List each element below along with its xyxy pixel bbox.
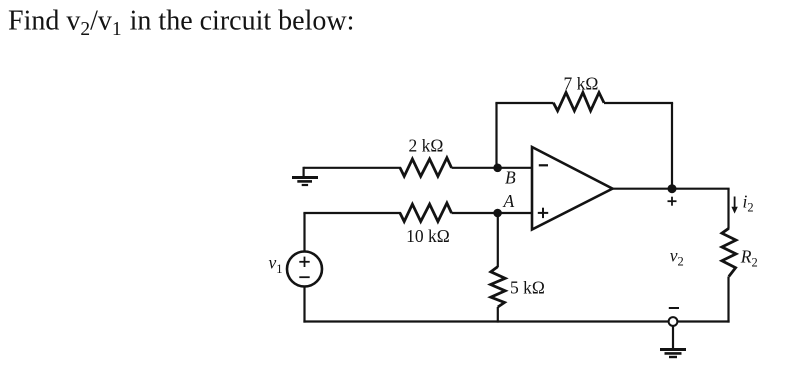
ground (left, at 2k input) — [292, 167, 318, 185]
svg-text:B: B — [505, 168, 516, 188]
wire: 10k row right segment to op-amp plus input — [452, 212, 534, 214]
svg-text:Find v2/v1 in the circuit belo: Find v2/v1 in the circuit below: — [8, 6, 354, 41]
wire: right branch top vertical — [727, 189, 729, 229]
resistor 2 kOhm — [400, 158, 452, 177]
label minus (v2 polarity) — [669, 307, 679, 309]
ground (bottom right, below terminal) — [660, 326, 686, 357]
wire: feedback top right segment — [604, 102, 673, 104]
wire: bottom rail — [303, 320, 729, 322]
wire: 5k bottom vertical to rail — [497, 307, 499, 323]
svg-text:5 kΩ: 5 kΩ — [510, 278, 545, 298]
svg-text:10 kΩ: 10 kΩ — [406, 226, 450, 246]
wire: 10k row left segment — [303, 212, 401, 214]
resistor 5 kOhm — [491, 267, 506, 307]
v1 plus sign — [299, 257, 309, 267]
svg-text:2 kΩ: 2 kΩ — [409, 136, 444, 156]
wire: v1 bottom vertical to rail — [303, 287, 305, 323]
svg-text:A: A — [503, 191, 515, 211]
node A dot — [493, 209, 502, 218]
node B dot — [493, 164, 502, 173]
wire: feedback top left segment — [495, 102, 553, 104]
op-amp minus sign — [539, 164, 548, 166]
resistor 7 kOhm — [553, 93, 604, 111]
svg-text:7 kΩ: 7 kΩ — [564, 74, 599, 94]
arrow i2 (current direction) — [731, 197, 737, 214]
wire: feedback left vertical — [495, 103, 497, 168]
wire: v1 top vertical up to 10k row — [303, 213, 305, 252]
wire: 2k row right segment to op-amp minus input — [452, 167, 534, 169]
label + (output polarity) — [668, 197, 677, 206]
voltage source v1 — [287, 252, 322, 287]
wire: feedback right vertical down to output node — [671, 103, 673, 189]
node: open terminal on rail — [669, 317, 678, 326]
resistor R2 — [722, 228, 736, 276]
node: output dot — [668, 184, 677, 193]
wire: op-amp output to right corner — [613, 188, 730, 190]
op-amp U1 — [532, 147, 613, 230]
v1 minus sign — [299, 276, 309, 278]
resistor 10 kOhm — [400, 203, 452, 222]
wire: right branch bottom vertical — [727, 277, 729, 323]
wire: 2k row left segment from ground to resistor — [304, 167, 401, 169]
op-amp plus sign — [538, 208, 548, 218]
wire: 5k top vertical from node A — [497, 213, 499, 267]
